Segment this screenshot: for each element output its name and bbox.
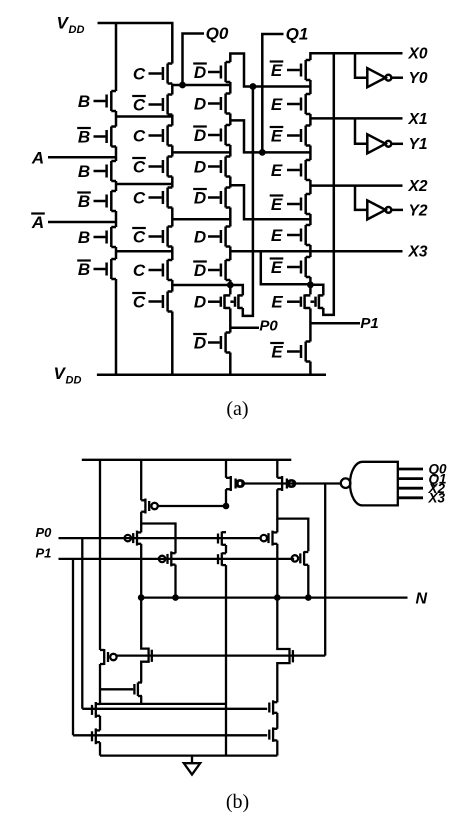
svg-text:A: A [31,148,44,167]
svg-text:E: E [271,95,283,114]
svg-text:B: B [78,192,90,211]
svg-text:C: C [133,96,146,115]
svg-text:E: E [271,161,283,180]
svg-text:P1: P1 [360,315,378,332]
svg-text:Y2: Y2 [409,202,428,219]
svg-text:C: C [133,189,146,208]
svg-text:D: D [194,189,206,208]
svg-text:C: C [133,261,146,280]
svg-text:D: D [194,63,206,82]
svg-text:Q1: Q1 [286,25,309,44]
svg-text:B: B [78,260,90,279]
svg-text:Q0: Q0 [206,24,229,43]
svg-text:C: C [133,228,146,247]
svg-text:X2: X2 [408,178,428,195]
svg-text:E: E [271,195,283,214]
svg-text:(a): (a) [226,398,248,420]
svg-text:D: D [194,261,206,280]
svg-text:Y1: Y1 [409,136,428,153]
svg-text:D: D [194,334,206,353]
svg-text:P0: P0 [36,525,53,540]
svg-text:P0: P0 [259,318,278,335]
svg-text:N: N [416,590,428,607]
svg-text:X3: X3 [408,244,428,261]
svg-text:(b): (b) [226,791,249,813]
svg-text:P1: P1 [36,546,52,561]
svg-text:X1: X1 [408,111,428,128]
svg-text:D: D [194,95,206,114]
svg-text:E: E [271,127,283,146]
svg-text:Y0: Y0 [409,70,428,87]
svg-text:C: C [133,127,146,146]
svg-text:B: B [78,128,90,147]
svg-text:D: D [194,126,206,145]
svg-text:A: A [31,213,44,232]
svg-text:X3: X3 [428,491,446,506]
svg-text:DD: DD [66,375,82,387]
svg-text:E: E [271,258,283,277]
svg-text:B: B [78,92,90,111]
svg-text:C: C [133,65,146,84]
svg-text:D: D [194,228,206,247]
svg-text:C: C [133,293,146,312]
svg-text:B: B [78,162,90,181]
svg-text:E: E [271,293,283,312]
svg-text:D: D [194,158,206,177]
svg-text:E: E [271,343,283,362]
svg-text:E: E [271,61,283,80]
svg-text:D: D [194,293,206,312]
svg-text:X0: X0 [408,46,428,63]
svg-text:E: E [271,226,283,245]
svg-text:B: B [78,228,90,247]
svg-text:DD: DD [69,24,85,36]
svg-text:C: C [133,158,146,177]
